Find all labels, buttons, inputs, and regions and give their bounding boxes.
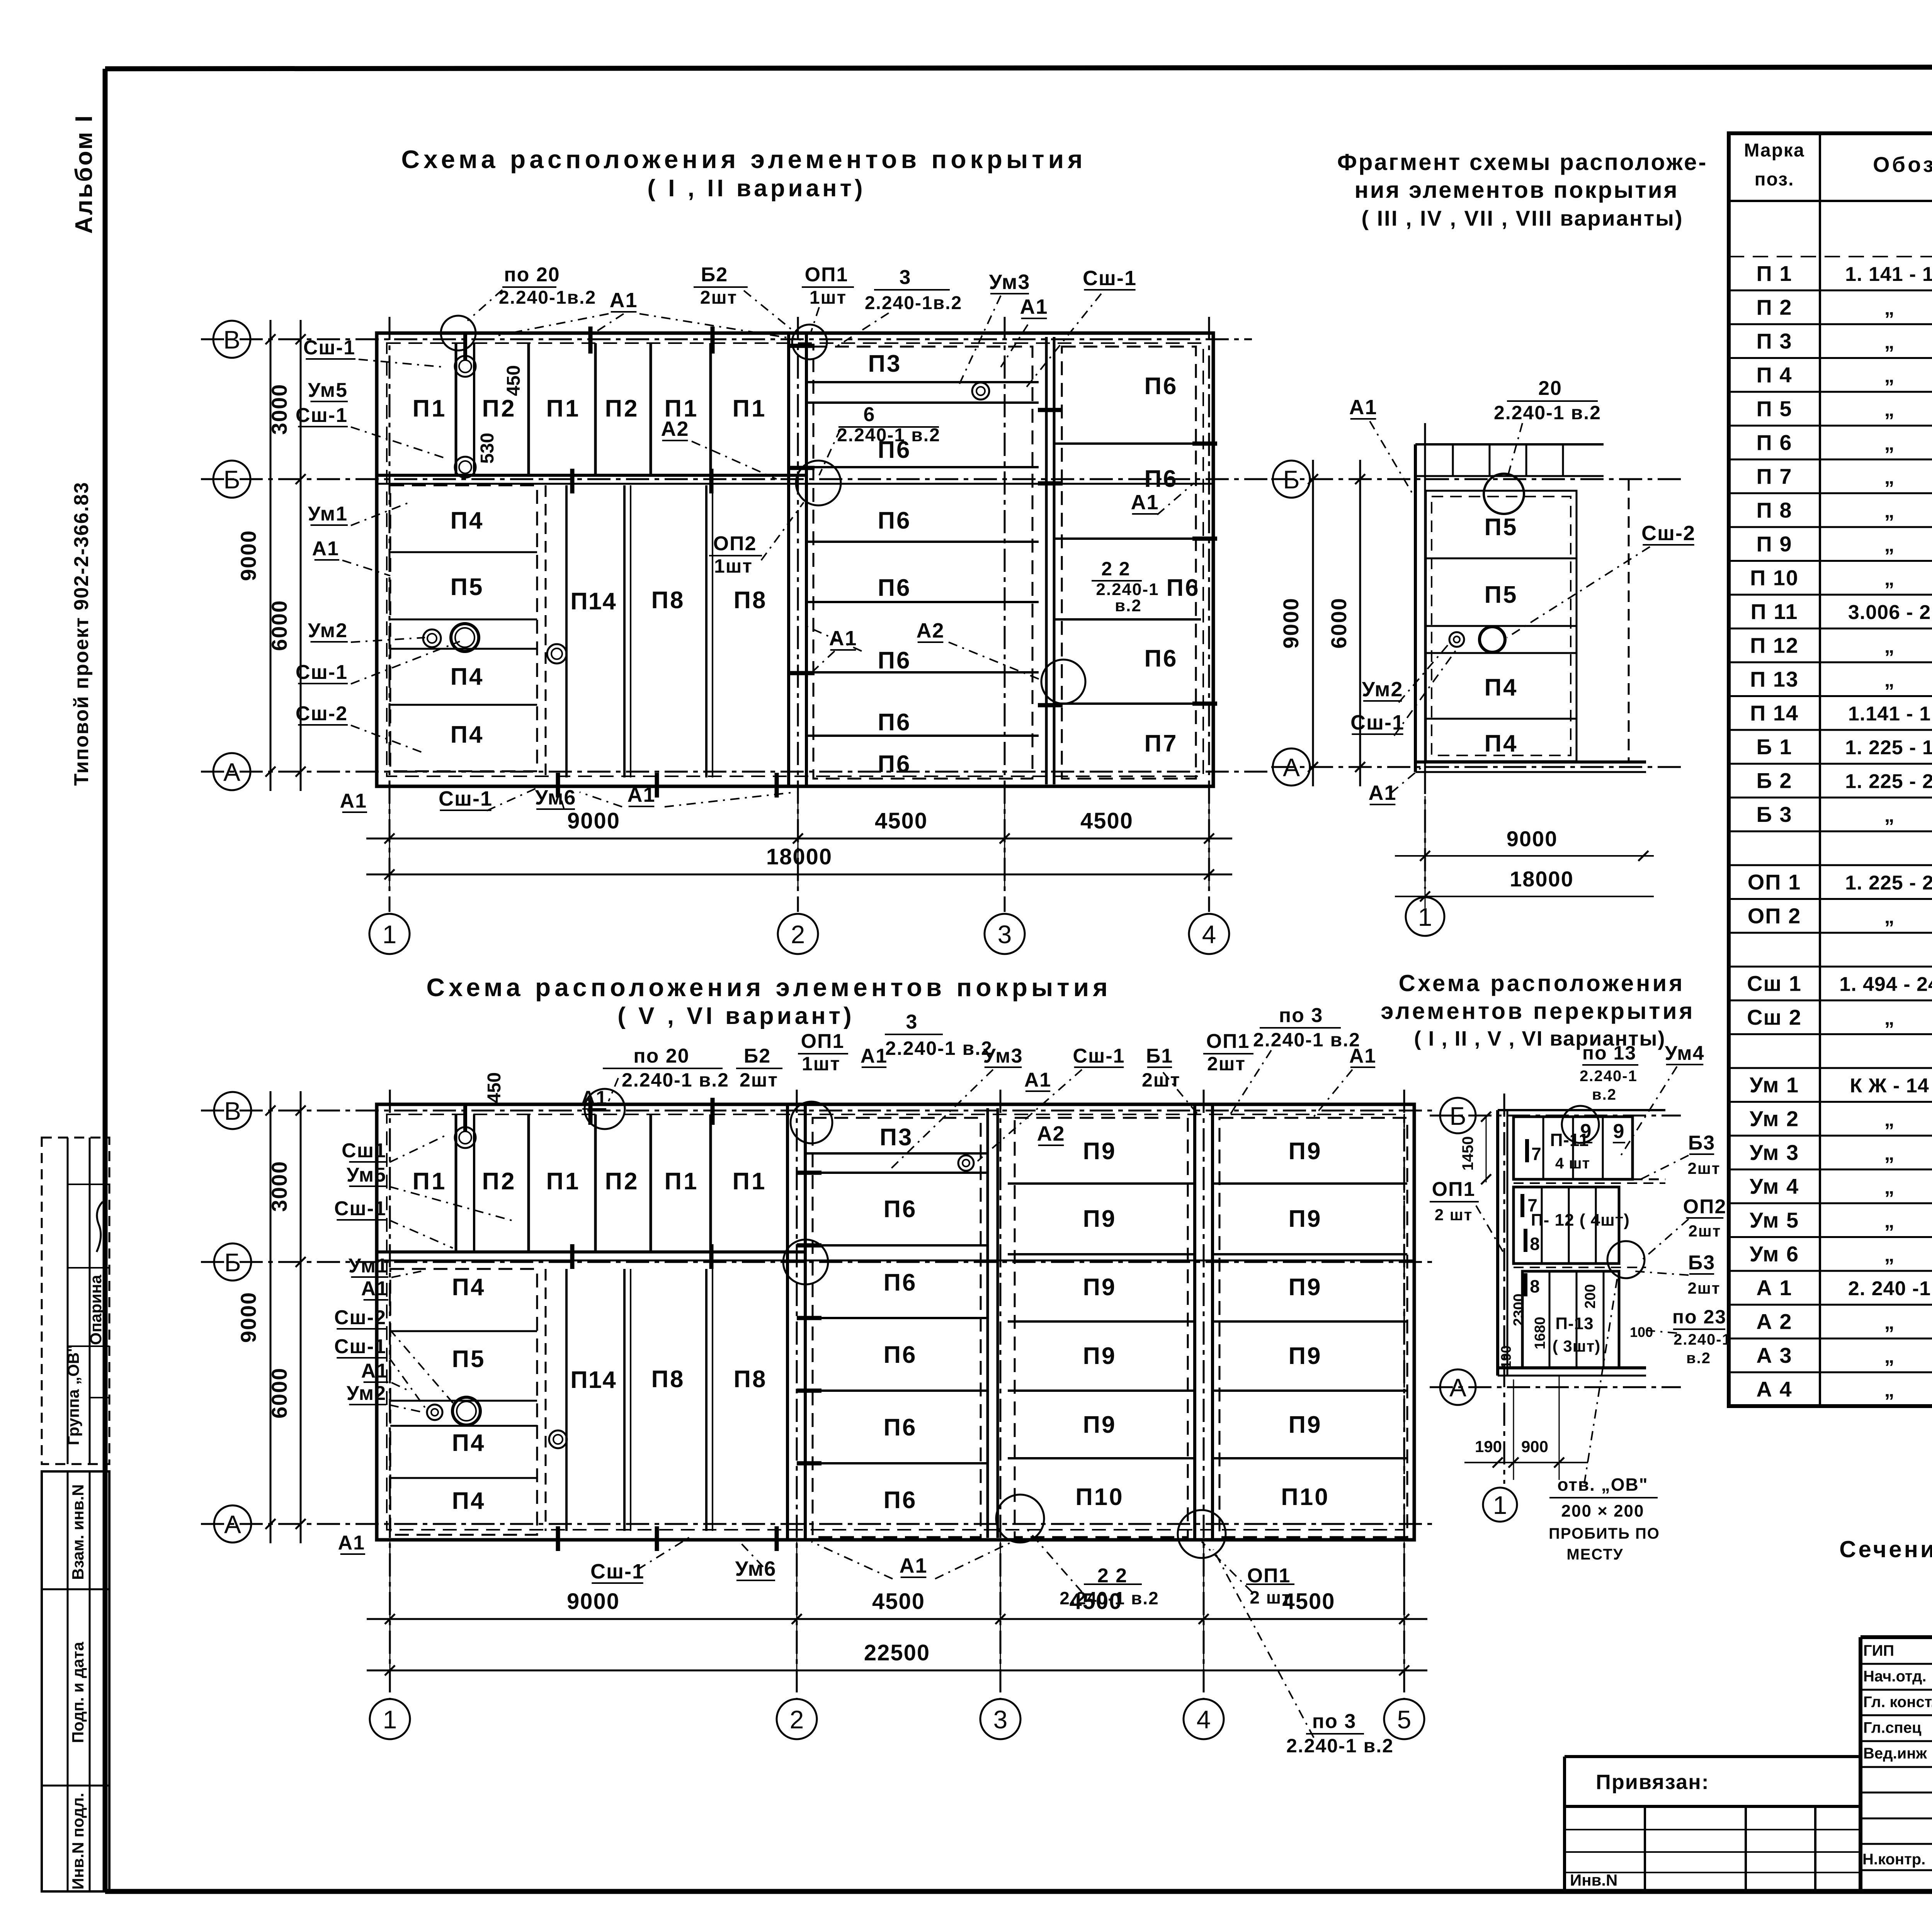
svg-text:П6: П6	[883, 1342, 917, 1368]
svg-text:Схема расположения: Схема расположения	[1399, 970, 1685, 996]
svg-text:Сш-1: Сш-1	[296, 404, 348, 427]
svg-text:3000: 3000	[267, 384, 291, 435]
svg-text:„: „	[1884, 1142, 1895, 1165]
svg-text:3: 3	[906, 1011, 918, 1033]
svg-text:А1: А1	[1020, 295, 1048, 318]
axis circle A top plan left	[213, 753, 250, 790]
svg-text:2.240-1 в.2: 2.240-1 в.2	[1253, 1029, 1361, 1051]
svg-text:9000: 9000	[1279, 597, 1303, 649]
svg-text:450: 450	[484, 1072, 505, 1103]
svg-text:П9: П9	[1288, 1138, 1322, 1165]
svg-text:5: 5	[1397, 1705, 1412, 1734]
svg-text:Ум3: Ум3	[989, 270, 1031, 294]
svg-text:7: 7	[1531, 1144, 1541, 1164]
axis circle 1 fragment	[1406, 897, 1444, 936]
svg-text:22500: 22500	[864, 1640, 930, 1665]
bottom plan middle bay P3 P6	[797, 1118, 988, 1537]
svg-text:20: 20	[1538, 377, 1562, 400]
svg-text:2 2: 2 2	[1101, 558, 1131, 580]
svg-text:1.141 - 1: 1.141 - 1	[1848, 703, 1931, 725]
title fragment bottom	[1381, 970, 1695, 1050]
axis circle A bottom plan	[214, 1505, 251, 1543]
top plan middle bay P3 P6	[790, 346, 1063, 779]
svg-text:„: „	[1884, 1379, 1895, 1401]
svg-text:П6: П6	[878, 647, 911, 674]
svg-text:в.2: в.2	[1686, 1350, 1711, 1367]
axis circle 5 bottom plan	[1384, 1699, 1424, 1739]
svg-text:„: „	[1884, 466, 1895, 488]
svg-text:П 7: П 7	[1757, 464, 1793, 488]
top plan axes	[201, 317, 1271, 912]
svg-text:Нач.отд.: Нач.отд.	[1863, 1668, 1926, 1685]
svg-text:К Ж - 14: К Ж - 14	[1850, 1075, 1929, 1097]
svg-text:П6: П6	[883, 1269, 917, 1296]
svg-text:А1: А1	[338, 1532, 365, 1554]
svg-text:Сш1: Сш1	[342, 1139, 386, 1162]
svg-text:Сш-1: Сш-1	[1073, 1045, 1125, 1067]
svg-text:1: 1	[383, 920, 397, 949]
svg-text:Ум 4: Ум 4	[1750, 1174, 1799, 1199]
svg-text:Инв.N: Инв.N	[1570, 1871, 1617, 1889]
svg-text:Альбом I: Альбом I	[71, 114, 97, 234]
svg-text:П9: П9	[1083, 1412, 1116, 1438]
svg-text:9000: 9000	[567, 1589, 620, 1614]
svg-text:2шт: 2шт	[740, 1069, 778, 1091]
axis circle A fragment	[1273, 748, 1310, 786]
svg-text:2 шт: 2 шт	[1250, 1587, 1291, 1607]
svg-text:П8: П8	[651, 587, 685, 614]
svg-text:„: „	[1884, 906, 1895, 928]
svg-text:Сш-1: Сш-1	[334, 1197, 386, 1220]
svg-text:Опарина: Опарина	[87, 1275, 105, 1345]
svg-text:450: 450	[503, 365, 524, 396]
svg-text:А: А	[1449, 1373, 1466, 1402]
svg-text:П8: П8	[733, 1366, 767, 1393]
svg-text:Сш-1: Сш-1	[334, 1335, 386, 1358]
svg-text:Н.контр.: Н.контр.	[1862, 1851, 1925, 1868]
svg-text:200 × 200: 200 × 200	[1561, 1502, 1645, 1520]
svg-text:П9: П9	[1083, 1343, 1116, 1369]
svg-text:в.2: в.2	[1592, 1086, 1617, 1103]
bottom plan bottom dimensions	[367, 1542, 1427, 1685]
svg-text:ОП1: ОП1	[1432, 1178, 1476, 1201]
svg-text:6: 6	[864, 403, 876, 426]
top fragment dimensions	[1279, 460, 1654, 908]
svg-text:Сш-1: Сш-1	[1350, 711, 1405, 734]
privyazan box	[1565, 1757, 1862, 1891]
svg-text:Марка: Марка	[1744, 140, 1804, 161]
svg-text:Ум 1: Ум 1	[1750, 1073, 1799, 1097]
bottom plan building outline	[377, 1104, 1414, 1540]
svg-text:П10: П10	[1075, 1484, 1124, 1510]
left margin text Album I	[71, 114, 97, 234]
svg-text:1: 1	[1493, 1491, 1507, 1519]
svg-text:П 2: П 2	[1757, 295, 1793, 320]
svg-text:„: „	[1884, 297, 1895, 320]
axis circle V top plan	[213, 321, 250, 358]
axis circle B bottom fragment	[1440, 1098, 1476, 1133]
svg-text:Б: Б	[224, 1248, 241, 1277]
svg-text:П6: П6	[1166, 575, 1200, 601]
svg-text:по 20: по 20	[504, 264, 560, 286]
svg-text:3: 3	[993, 1705, 1008, 1734]
svg-text:А2: А2	[916, 619, 944, 642]
svg-text:в.2: в.2	[1115, 596, 1142, 615]
svg-text:П10: П10	[1281, 1484, 1330, 1510]
svg-text:Схема расположения элементов: Схема расположения элементов покрытия	[426, 973, 1111, 1002]
svg-text:П9: П9	[1083, 1274, 1116, 1301]
left margin stamp lower box inventory	[42, 1471, 109, 1891]
svg-text:„: „	[1884, 1311, 1895, 1334]
axis circle 2 bottom plan	[777, 1699, 817, 1739]
svg-text:9000: 9000	[1507, 827, 1558, 851]
svg-text:Ум6: Ум6	[735, 1557, 777, 1580]
svg-text:А1: А1	[899, 1554, 927, 1577]
svg-text:1. 225 - 1: 1. 225 - 1	[1845, 736, 1932, 759]
bottom fragment building	[1498, 1110, 1665, 1376]
svg-text:2: 2	[791, 920, 805, 949]
svg-text:„: „	[1884, 1244, 1895, 1266]
svg-text:4500: 4500	[1080, 808, 1133, 833]
svg-text:2шт: 2шт	[700, 287, 737, 308]
svg-text:П6: П6	[883, 1487, 917, 1514]
svg-text:3: 3	[900, 266, 912, 289]
bottom fragment labels	[1430, 1042, 1731, 1367]
svg-text:А2: А2	[661, 417, 689, 440]
svg-text:элементов перекрытия: элементов перекрытия	[1381, 998, 1695, 1024]
svg-text:Б: Б	[223, 465, 240, 494]
svg-text:2.240-1в.2: 2.240-1в.2	[499, 287, 596, 308]
svg-text:2шт: 2шт	[1688, 1279, 1721, 1297]
svg-text:Сш-1: Сш-1	[590, 1560, 645, 1583]
svg-text:2: 2	[790, 1705, 804, 1734]
svg-text:Схема расположения элементов: Схема расположения элементов покрытия	[401, 145, 1086, 173]
svg-text:„: „	[1884, 331, 1895, 353]
svg-text:2.240-1: 2.240-1	[1673, 1331, 1731, 1348]
svg-text:П1: П1	[732, 1168, 767, 1195]
svg-text:П5: П5	[450, 574, 484, 600]
svg-text:А1: А1	[312, 537, 339, 560]
svg-text:Ум4: Ум4	[1665, 1042, 1704, 1065]
svg-text:П2: П2	[605, 1168, 639, 1195]
svg-text:Б2: Б2	[744, 1045, 771, 1067]
svg-text:А1: А1	[581, 1087, 607, 1109]
svg-text:П2: П2	[605, 395, 639, 422]
svg-text:„: „	[1884, 500, 1895, 522]
svg-text:А2: А2	[1037, 1122, 1065, 1145]
svg-text:П9: П9	[1083, 1138, 1116, 1165]
bottom fragment bottom dims	[1464, 1376, 1588, 1480]
axis circle 1 bottom plan	[370, 1699, 410, 1739]
svg-text:Б: Б	[1283, 465, 1299, 494]
svg-text:А1: А1	[1131, 491, 1159, 514]
svg-text:„: „	[1884, 568, 1895, 590]
svg-text:П2: П2	[482, 395, 516, 422]
svg-text:Сечения 7-7 ÷ 9-9 см. лист: Сечения 7-7 ÷ 9-9 см. лист КЖ-14	[1839, 1536, 1932, 1562]
svg-text:П8: П8	[651, 1366, 685, 1393]
svg-text:ОП1: ОП1	[805, 264, 849, 286]
svg-text:ОП 2: ОП 2	[1748, 904, 1801, 928]
svg-text:П 6: П 6	[1757, 430, 1793, 455]
svg-text:В: В	[224, 1097, 241, 1125]
top plan bottom dimensions	[366, 788, 1232, 889]
svg-text:Ум 5: Ум 5	[1750, 1208, 1799, 1232]
svg-text:3.006 - 2: 3.006 - 2	[1848, 601, 1931, 624]
svg-text:Фрагмент схемы расположе-: Фрагмент схемы расположе-	[1337, 149, 1708, 175]
top fragment building	[1415, 444, 1646, 772]
svg-text:П 9: П 9	[1757, 532, 1793, 556]
axis circle V bottom plan	[214, 1092, 251, 1129]
svg-text:П 3: П 3	[1757, 329, 1793, 353]
svg-text:Ум2: Ум2	[1362, 678, 1403, 701]
svg-text:П9: П9	[1288, 1206, 1322, 1232]
svg-text:Привязан:: Привязан:	[1596, 1770, 1709, 1794]
svg-text:П7: П7	[1144, 730, 1178, 757]
hole note	[1549, 1279, 1660, 1563]
bottom plan leader labels	[334, 1004, 1394, 1757]
svg-text:2.240-1 в.2: 2.240-1 в.2	[1494, 402, 1601, 423]
svg-text:П14: П14	[570, 588, 617, 615]
svg-text:А1: А1	[861, 1045, 888, 1067]
svg-text:18000: 18000	[1510, 867, 1574, 891]
svg-text:6000: 6000	[267, 600, 291, 651]
bottom plan P4 stack	[390, 1269, 537, 1535]
svg-text:П 8: П 8	[1757, 498, 1793, 522]
svg-text:поз.: поз.	[1755, 169, 1794, 190]
svg-text:8: 8	[1530, 1276, 1540, 1296]
top plan Um6 strip and P14 P8 P8	[546, 485, 777, 798]
bottom plan Um6 strip P14 P8 P8	[546, 1269, 777, 1551]
svg-text:190: 190	[1475, 1437, 1502, 1456]
axis circle B top plan left	[213, 461, 250, 498]
svg-text:ОП1: ОП1	[1206, 1030, 1250, 1053]
svg-text:отв. „ОВ": отв. „ОВ"	[1557, 1475, 1648, 1495]
bottom plan axes	[201, 1090, 1437, 1698]
svg-text:А1: А1	[1349, 396, 1377, 419]
svg-text:А1: А1	[627, 783, 655, 806]
svg-text:Б3: Б3	[1688, 1132, 1715, 1154]
axis circle B bottom plan	[214, 1243, 251, 1281]
svg-text:„: „	[1884, 1210, 1895, 1232]
svg-text:Группа „ОВ": Группа „ОВ"	[64, 1345, 82, 1445]
svg-text:Б3: Б3	[1688, 1252, 1715, 1274]
svg-text:1шт: 1шт	[802, 1053, 840, 1075]
svg-text:П4: П4	[450, 507, 484, 534]
svg-text:П 4: П 4	[1757, 363, 1793, 387]
svg-text:1. 225 - 2: 1. 225 - 2	[1845, 872, 1932, 894]
svg-text:А 3: А 3	[1756, 1343, 1792, 1367]
svg-text:3000: 3000	[267, 1161, 291, 1212]
svg-text:190: 190	[1498, 1345, 1514, 1369]
svg-text:МЕСТУ: МЕСТУ	[1566, 1546, 1623, 1563]
axis circle 3 bottom plan	[980, 1699, 1020, 1739]
svg-text:Б 1: Б 1	[1757, 735, 1793, 759]
svg-text:4 шт: 4 шт	[1555, 1155, 1590, 1172]
bottom plan bay 4-5 P9 P10	[1213, 1118, 1407, 1537]
svg-text:1. 225 - 2: 1. 225 - 2	[1845, 770, 1932, 793]
svg-text:„: „	[1884, 635, 1895, 658]
svg-text:Сш-1: Сш-1	[1083, 267, 1137, 290]
svg-text:„: „	[1884, 669, 1895, 691]
svg-text:Б2: Б2	[701, 264, 728, 286]
svg-text:„: „	[1884, 534, 1895, 556]
top fragment labels	[1349, 377, 1696, 804]
svg-text:8: 8	[1530, 1234, 1540, 1254]
svg-text:( 3шт): ( 3шт)	[1553, 1337, 1601, 1355]
svg-text:П1: П1	[412, 1168, 447, 1195]
svg-text:Сш-2: Сш-2	[1641, 522, 1696, 545]
svg-text:1шт: 1шт	[810, 287, 847, 308]
svg-text:2шт: 2шт	[1688, 1159, 1721, 1177]
svg-text:„: „	[1884, 398, 1895, 421]
svg-text:П 12: П 12	[1750, 633, 1799, 658]
svg-text:П1: П1	[412, 395, 447, 422]
svg-text:Ум6: Ум6	[535, 786, 577, 809]
svg-text:ОП1: ОП1	[801, 1030, 845, 1053]
svg-text:П6: П6	[878, 751, 911, 777]
svg-text:Б: Б	[1449, 1102, 1466, 1130]
axis circle 4 top plan	[1189, 914, 1229, 954]
svg-text:2.240-1 в.2: 2.240-1 в.2	[622, 1069, 729, 1091]
svg-text:Сш-1: Сш-1	[296, 661, 348, 684]
svg-text:Ум2: Ум2	[347, 1382, 386, 1405]
svg-text:П4: П4	[452, 1430, 485, 1456]
svg-text:А1: А1	[361, 1277, 388, 1300]
svg-text:Б 2: Б 2	[1757, 769, 1793, 793]
svg-text:2. 240 -1: 2. 240 -1	[1848, 1277, 1931, 1300]
svg-text:( I , II , V , VI варианты): ( I , II , V , VI варианты)	[1414, 1027, 1666, 1050]
svg-text:( V , VI вариант): ( V , VI вариант)	[617, 1003, 854, 1029]
svg-text:1. 141 - 1: 1. 141 - 1	[1845, 263, 1932, 286]
svg-text:А1: А1	[1368, 781, 1396, 804]
svg-text:П5: П5	[1484, 514, 1518, 541]
svg-text:П1: П1	[546, 1168, 580, 1195]
svg-text:П6: П6	[878, 575, 911, 601]
svg-text:„: „	[1884, 1345, 1895, 1367]
svg-text:П3: П3	[879, 1124, 913, 1151]
svg-text:ния элементов покрытия: ния элементов покрытия	[1354, 177, 1679, 203]
svg-text:„: „	[1884, 1176, 1895, 1199]
svg-text:9000: 9000	[236, 1292, 260, 1343]
svg-text:П- 12 ( 4шт): П- 12 ( 4шт)	[1531, 1211, 1630, 1230]
svg-text:ПРОБИТЬ ПО: ПРОБИТЬ ПО	[1549, 1525, 1660, 1542]
svg-text:9: 9	[1613, 1120, 1625, 1143]
svg-text:4500: 4500	[872, 1589, 925, 1614]
svg-text:В: В	[223, 325, 240, 354]
svg-text:ОП2: ОП2	[1683, 1196, 1727, 1218]
svg-text:1шт: 1шт	[714, 555, 753, 577]
svg-text:П1: П1	[664, 1168, 699, 1195]
svg-text:Б1: Б1	[1146, 1045, 1173, 1067]
svg-text:П6: П6	[878, 709, 911, 736]
svg-text:П-13: П-13	[1555, 1314, 1594, 1333]
axis circle A bottom fragment	[1440, 1369, 1476, 1405]
svg-text:„: „	[1884, 432, 1895, 455]
bottom plan band panels	[412, 1072, 767, 1269]
svg-text:Сш-1: Сш-1	[439, 787, 493, 810]
svg-text:2.240-1 в.2: 2.240-1 в.2	[837, 425, 940, 446]
svg-text:П 13: П 13	[1750, 667, 1799, 691]
svg-text:2 шт: 2 шт	[1435, 1206, 1473, 1224]
svg-text:Ум 2: Ум 2	[1750, 1107, 1799, 1131]
bottom plan callout circles	[585, 1089, 625, 1129]
svg-text:Вед.инж: Вед.инж	[1863, 1745, 1927, 1762]
svg-text:„: „	[1884, 804, 1895, 827]
svg-text:2.240-1 в.2: 2.240-1 в.2	[885, 1037, 993, 1059]
svg-text:П3: П3	[868, 350, 901, 377]
svg-text:ОП 1: ОП 1	[1748, 870, 1801, 894]
svg-text:9000: 9000	[567, 808, 620, 833]
top plan band panels P1 P2	[412, 327, 767, 493]
svg-text:П6: П6	[878, 507, 911, 534]
svg-text:4500: 4500	[875, 808, 928, 833]
svg-text:Взам. инв.N: Взам. инв.N	[69, 1484, 87, 1580]
bottom plan left dimensions	[236, 1091, 306, 1543]
svg-text:П4: П4	[450, 663, 484, 690]
title bottom plan	[426, 973, 1111, 1029]
top plan right bay P6 P7	[1054, 347, 1217, 779]
svg-text:2шт: 2шт	[1207, 1053, 1246, 1075]
svg-text:П6: П6	[1144, 466, 1178, 492]
top plan P4 stack	[390, 485, 537, 771]
svg-text:П9: П9	[1288, 1343, 1322, 1369]
svg-text:П 5: П 5	[1757, 396, 1793, 421]
svg-text:Ум1: Ум1	[308, 503, 348, 525]
svg-text:530: 530	[477, 433, 498, 464]
svg-text:Ум2: Ум2	[308, 619, 348, 642]
svg-text:Сш-1: Сш-1	[303, 337, 355, 359]
svg-text:П6: П6	[1144, 373, 1178, 400]
svg-text:„: „	[1884, 365, 1895, 387]
top fragment axes	[1271, 423, 1685, 889]
top plan callout circles	[441, 316, 476, 350]
specification table	[1729, 133, 1932, 1406]
svg-text:П1: П1	[732, 395, 767, 422]
svg-text:Ум5: Ум5	[347, 1164, 386, 1186]
svg-text:Ум1: Ум1	[349, 1255, 388, 1277]
svg-text:А: А	[1283, 753, 1300, 782]
svg-text:Ум 3: Ум 3	[1750, 1140, 1799, 1165]
svg-text:9000: 9000	[236, 530, 260, 581]
svg-text:2.240-1 в.2: 2.240-1 в.2	[1286, 1735, 1394, 1757]
svg-text:А 1: А 1	[1756, 1276, 1792, 1300]
svg-text:1450: 1450	[1459, 1136, 1476, 1171]
svg-text:П4: П4	[1484, 674, 1518, 701]
top plan leader labels	[296, 264, 1194, 812]
svg-text:А: А	[224, 1510, 241, 1539]
bottom fragment axes	[1430, 1094, 1681, 1484]
svg-text:П 11: П 11	[1750, 599, 1798, 624]
svg-text:П1: П1	[546, 395, 580, 422]
axis circle 2 top plan	[778, 914, 818, 954]
left margin text project number	[70, 481, 93, 786]
svg-text:2шт: 2шт	[1689, 1222, 1721, 1240]
svg-text:„: „	[1884, 1109, 1895, 1131]
svg-text:Б 3: Б 3	[1757, 802, 1793, 827]
svg-text:П5: П5	[452, 1346, 485, 1372]
svg-text:Инв.N подл.: Инв.N подл.	[69, 1793, 87, 1890]
svg-text:П 10: П 10	[1750, 566, 1799, 590]
svg-text:А1: А1	[609, 289, 638, 312]
axis circle B fragment	[1273, 461, 1310, 498]
svg-text:П 14: П 14	[1750, 701, 1799, 725]
svg-text:900: 900	[1521, 1437, 1548, 1456]
svg-text:ОП2: ОП2	[713, 532, 757, 555]
svg-text:А 4: А 4	[1756, 1377, 1792, 1401]
svg-text:П4: П4	[452, 1488, 485, 1514]
axis circle 4 bottom plan	[1184, 1699, 1224, 1739]
svg-text:6000: 6000	[1327, 597, 1351, 649]
